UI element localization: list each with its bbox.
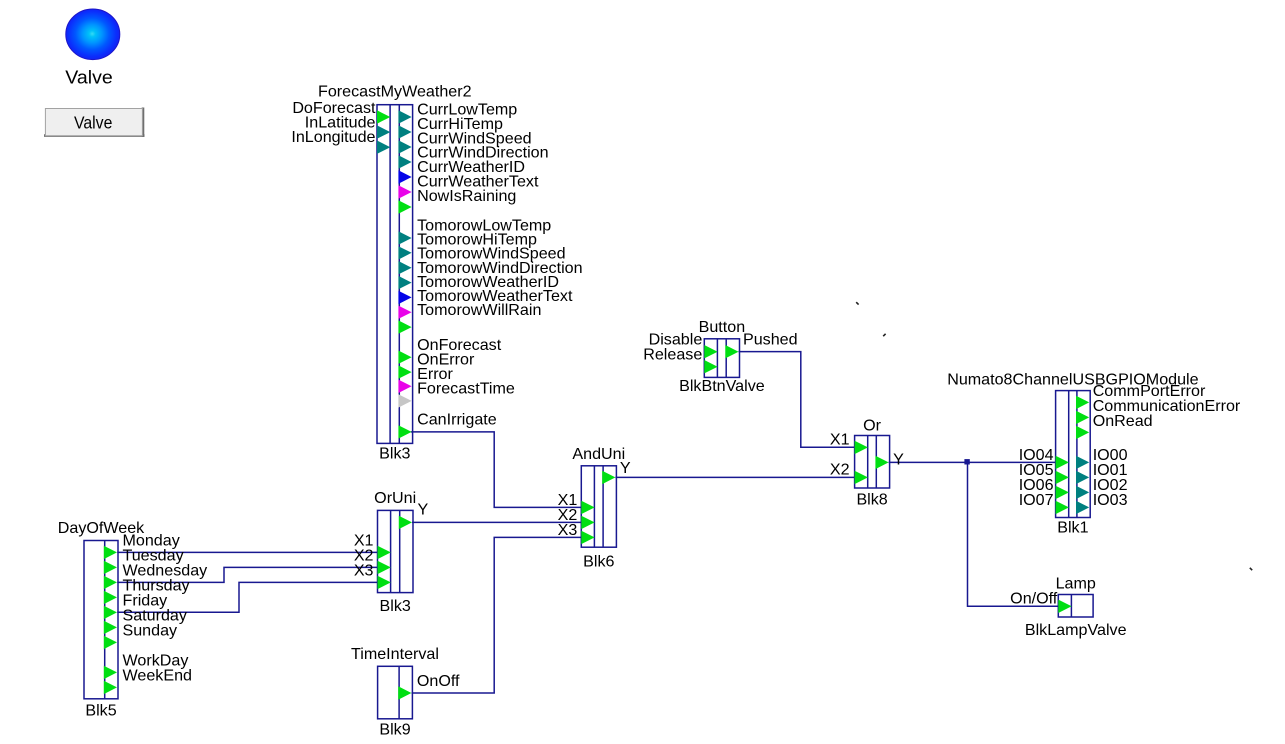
input pin IO06 [1056,486,1069,499]
wire junction node [964,459,969,464]
input pin InLatitude [377,125,390,138]
svg-text:IO07: IO07 [1019,491,1054,509]
svg-text:Blk3: Blk3 [379,445,410,463]
input pin IO07 [1056,501,1069,514]
output pin CurrWeatherID [398,170,411,183]
output pin Y [875,456,888,469]
svg-text:AndUni: AndUni [572,445,625,463]
svg-text:Blk5: Blk5 [85,701,116,719]
valve push-button [45,109,142,136]
output pin IO03 [1076,501,1089,514]
svg-text:Button: Button [699,318,746,336]
input pin X2 [581,516,594,529]
svg-text:On/Off: On/Off [1010,590,1058,608]
output pin Sunday [104,636,117,649]
output pin TomorowWeatherText [398,306,411,319]
block TimeInterval (Blk9) body [378,666,413,719]
output pin Wednesday [104,576,117,589]
output pin Tuesday [104,561,117,574]
wire ForecastMyWeather2 CanIrrigate -> AndUni X1 [411,432,582,508]
svg-text:Blk6: Blk6 [583,553,614,571]
block Lamp (BlkLampValve) body [1058,595,1093,618]
svg-text:Or: Or [863,417,882,435]
svg-text:X2: X2 [830,461,850,479]
input pin X2 [378,561,391,574]
block Button (BlkBtnValve) body [704,339,739,378]
svg-text:Lamp: Lamp [1056,574,1096,592]
output pin OnForecast [398,351,411,364]
output pin CurrWindDirection [398,155,411,168]
input pin X1 [378,546,391,559]
svg-text:ForecastTime: ForecastTime [417,380,515,398]
svg-text:X3: X3 [354,562,374,580]
block Numato8ChannelUSBGPIOModule (Blk1) body [1056,391,1091,518]
output pin Saturday [104,621,117,634]
output pin OnError [398,365,411,378]
svg-text:Blk1: Blk1 [1057,518,1088,536]
input pin DoForecast [377,110,390,123]
input pin On/Off [1058,600,1071,613]
wire DayOfWeek Wednesday -> OrUni X2 [117,567,377,582]
output pin ForecastTime [398,394,411,407]
output pin IO01 [1076,471,1089,484]
input pin X3 [581,531,594,544]
svg-text:OrUni: OrUni [374,489,416,507]
output pin OnRead [1076,426,1089,439]
input pin X2 [855,471,868,484]
svg-text:OnOff: OnOff [417,672,460,690]
output pin OnOff [398,686,411,699]
svg-text:BlkLampValve: BlkLampValve [1025,621,1127,639]
svg-text:InLongitude: InLongitude [291,128,375,146]
output pin Pushed [725,345,738,358]
svg-text:Valve: Valve [74,112,112,132]
output pin TomorowWindSpeed [398,261,411,274]
wire DayOfWeek Monday -> OrUni X1 [117,551,377,553]
valve sphere icon [66,9,120,60]
output pin TomorowWindDirection [398,276,411,289]
svg-text:OnRead: OnRead [1093,412,1153,430]
output pin TomorowHiTemp [398,246,411,259]
input pin X3 [378,576,391,589]
output pin CanIrrigate [398,425,411,438]
speck 2 [883,334,885,336]
svg-text:TimeInterval: TimeInterval [351,645,439,663]
output pin WeekEnd [104,681,117,694]
wire junction -> Lamp On/Off [968,462,1059,606]
svg-text:ForecastMyWeather2: ForecastMyWeather2 [318,83,472,101]
input pin IO05 [1056,471,1069,484]
output pin Monday [104,546,117,559]
svg-text:BlkBtnValve: BlkBtnValve [679,377,765,395]
input pin X1 [581,501,594,514]
svg-text:Release: Release [643,345,702,363]
block Or (Blk8) body [855,436,890,489]
speck 1 [856,302,858,304]
svg-text:X3: X3 [558,521,578,539]
svg-text:IO03: IO03 [1093,491,1128,509]
output pin IO00 [1076,456,1089,469]
block AndUni (Blk6) body [581,466,616,547]
output pin TomorowLowTemp [398,231,411,244]
svg-text:Blk3: Blk3 [380,597,411,615]
svg-text:Sunday: Sunday [123,621,179,639]
svg-text:Blk8: Blk8 [856,491,887,509]
block DayOfWeek (Blk5) body [84,541,118,699]
output pin CurrWeatherText [398,185,411,198]
svg-text:Y: Y [620,459,631,477]
wire Or Y -> Numato IO04 [889,461,1056,463]
block ForecastMyWeather2 (Blk3) body [377,105,413,444]
svg-text:Pushed: Pushed [743,330,798,348]
output pin IO02 [1076,486,1089,499]
wire AndUni Y -> Or X2 [615,476,854,478]
svg-text:TomorowWillRain: TomorowWillRain [417,301,541,319]
output pin Error [398,380,411,393]
input pin Disable [704,345,717,358]
output pin CurrLowTemp [398,110,411,123]
block OrUni (Blk3) body [378,510,414,592]
svg-text:Y: Y [893,450,904,468]
output pin CurrWindSpeed [398,140,411,153]
input pin IO04 [1056,456,1069,469]
svg-text:Valve: Valve [65,67,112,88]
wire OrUni Y -> AndUni X2 [412,521,581,523]
output pin CurrHiTemp [398,125,411,138]
output pin NowIsRaining [398,200,411,213]
svg-text:NowIsRaining: NowIsRaining [417,187,516,205]
input pin Release [704,360,717,373]
svg-text:Y: Y [418,501,429,519]
wire DayOfWeek Friday -> OrUni X3 [117,582,377,612]
wire Button Pushed -> Or X1 [739,352,855,448]
output pin Friday [104,606,117,619]
svg-text:CanIrrigate: CanIrrigate [417,410,497,428]
svg-text:X1: X1 [830,431,850,449]
output pin TomorowWeatherID [398,291,411,304]
svg-text:WeekEnd: WeekEnd [123,666,192,684]
output pin WorkDay [104,666,117,679]
output pin CommunicationError [1076,411,1089,424]
wire TimeInterval OnOff -> AndUni X3 [412,537,582,693]
input pin InLongitude [377,141,390,154]
output pin CommPortError [1076,396,1089,409]
svg-text:Blk9: Blk9 [379,721,410,739]
input pin X1 [855,441,868,454]
output pin Thursday [104,591,117,604]
valve push-button shadow [44,108,145,138]
output pin Y [399,516,412,529]
speck 3 [1250,568,1252,570]
output pin TomorowWillRain [398,320,411,333]
output pin Y [602,471,615,484]
